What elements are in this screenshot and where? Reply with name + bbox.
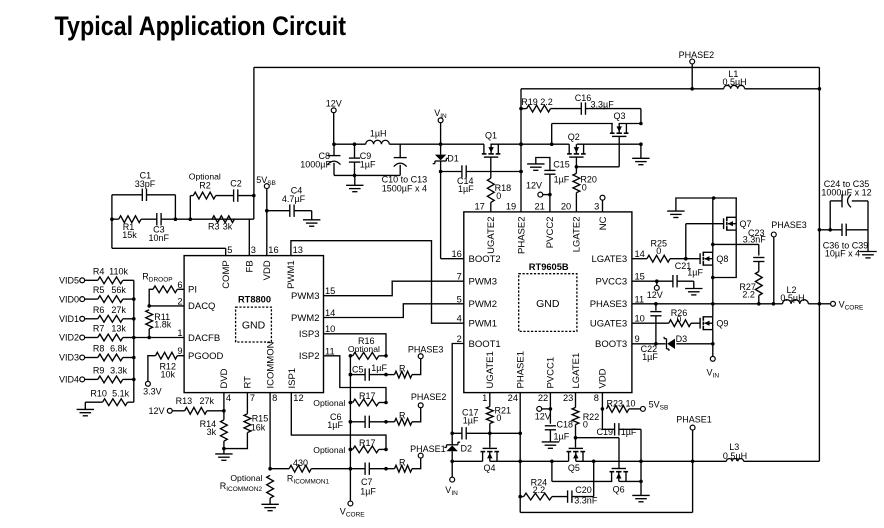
terminal VIN bottom-left	[445, 460, 458, 497]
capacitor C17	[462, 408, 479, 440]
svg-text:PWM1: PWM1	[469, 319, 498, 330]
U1 right pin numbers	[325, 286, 335, 356]
capacitor C14	[457, 165, 474, 194]
resistor R5	[85, 285, 134, 302]
svg-text:R10: R10	[90, 388, 107, 398]
svg-text:9: 9	[635, 334, 640, 344]
svg-text:Q8: Q8	[716, 254, 728, 264]
wire DACFB	[134, 336, 184, 340]
resistor R25	[632, 238, 700, 262]
wire comp left node	[110, 195, 114, 249]
wire VDD	[265, 209, 290, 256]
resistor R18	[487, 157, 511, 212]
svg-text:7: 7	[457, 272, 462, 282]
svg-text:PWM2: PWM2	[291, 313, 320, 324]
wire C24 right	[846, 201, 868, 252]
svg-text:VDD: VDD	[262, 260, 273, 280]
svg-text:C5: C5	[352, 364, 364, 374]
resistor R12	[148, 352, 184, 381]
resistor R22	[572, 393, 599, 448]
svg-text:C19: C19	[596, 427, 613, 437]
U1 bottom pin numbers	[226, 393, 304, 403]
svg-text:3k: 3k	[207, 427, 217, 437]
svg-text:5: 5	[457, 294, 462, 304]
svg-text:PHASE3: PHASE3	[408, 345, 444, 355]
capacitor C1	[112, 171, 175, 202]
wire PHASE3 rail	[632, 302, 820, 306]
svg-text:4.7µF: 4.7µF	[282, 194, 306, 204]
wire C23 link	[713, 244, 759, 255]
svg-text:R17: R17	[359, 391, 376, 401]
svg-text:PHASE2: PHASE2	[516, 217, 527, 255]
svg-text:0: 0	[496, 191, 501, 201]
svg-text:Optional: Optional	[313, 398, 345, 408]
svg-text:430: 430	[293, 458, 308, 468]
svg-text:PWM2: PWM2	[469, 299, 498, 310]
svg-text:2.2: 2.2	[533, 485, 546, 495]
transistor Q9	[700, 316, 728, 330]
svg-text:1500µF x 4: 1500µF x 4	[382, 183, 427, 193]
svg-text:VID0: VID0	[59, 294, 79, 304]
U1 right pin names	[291, 291, 320, 362]
svg-text:C18: C18	[557, 419, 574, 429]
svg-text:COMP: COMP	[221, 260, 232, 289]
terminal VCORE right	[819, 299, 864, 311]
capacitor C7	[350, 463, 387, 497]
resistor R phase1	[386, 458, 421, 473]
terminal 5VSB	[256, 175, 276, 211]
wire bottom return	[520, 430, 692, 512]
terminal 12V input	[326, 98, 342, 144]
U2 left pin numbers	[451, 249, 461, 344]
terminal PHASE3 mid	[408, 345, 444, 359]
ground C15	[527, 164, 544, 170]
svg-text:0: 0	[582, 182, 587, 192]
ground C18	[542, 442, 559, 448]
wire C17 row	[450, 432, 522, 436]
svg-text:1000µF x 12: 1000µF x 12	[821, 187, 871, 197]
svg-text:14: 14	[635, 249, 645, 259]
capacitor C2	[230, 178, 255, 202]
svg-text:PHASE3: PHASE3	[771, 220, 807, 230]
svg-text:0: 0	[677, 314, 682, 324]
wire PWM3 link	[324, 281, 464, 296]
svg-text:R2: R2	[199, 180, 211, 190]
svg-text:PWM3: PWM3	[291, 291, 320, 302]
resistor R7	[85, 324, 134, 341]
svg-text:PHASE3: PHASE3	[590, 299, 628, 310]
svg-text:15: 15	[635, 272, 645, 282]
svg-text:2: 2	[177, 296, 182, 306]
wire ISP3	[324, 334, 387, 356]
svg-text:PHASE1: PHASE1	[410, 444, 446, 454]
svg-text:R6: R6	[93, 305, 105, 315]
svg-text:0: 0	[496, 413, 501, 423]
svg-text:Q9: Q9	[716, 319, 728, 329]
svg-text:1µF: 1µF	[554, 175, 570, 185]
ground C21	[685, 289, 702, 295]
svg-text:10µF x 4: 10µF x 4	[825, 249, 860, 259]
wire Q8 drain	[711, 198, 715, 252]
capacitor C5	[349, 363, 388, 381]
svg-text:5: 5	[227, 245, 232, 255]
wire ICOMMON	[268, 393, 272, 471]
svg-text:10: 10	[635, 314, 645, 324]
wire main low rail	[452, 460, 694, 464]
svg-text:8: 8	[272, 393, 277, 403]
svg-text:3: 3	[594, 201, 599, 211]
svg-text:1µF: 1µF	[687, 268, 703, 278]
terminal VID5	[59, 276, 85, 286]
U1 left pin names	[188, 285, 224, 362]
svg-text:C2: C2	[230, 178, 242, 188]
svg-text:D1: D1	[447, 153, 459, 163]
capacitor C10-C13	[382, 144, 428, 193]
terminal VID4	[59, 375, 85, 385]
terminal 12V PVCC3	[647, 285, 663, 299]
resistor R6	[85, 305, 134, 322]
svg-text:1µF: 1µF	[360, 487, 376, 497]
terminal PHASE1 bottom	[676, 414, 712, 430]
svg-text:27k: 27k	[111, 305, 126, 315]
resistor R23	[606, 398, 640, 412]
inductor 1uH	[366, 129, 390, 145]
svg-text:VID1: VID1	[59, 314, 79, 324]
svg-text:3.3nF: 3.3nF	[574, 495, 598, 505]
transistor Q7	[724, 217, 752, 231]
terminal 12V PVCC2	[526, 180, 552, 197]
U2 right pin numbers	[635, 249, 645, 344]
svg-text:VDD: VDD	[598, 368, 609, 388]
svg-text:10nF: 10nF	[148, 233, 169, 243]
wire PHASE1 pin24	[518, 393, 522, 513]
terminal 12V DVD	[148, 406, 172, 416]
svg-text:17: 17	[474, 201, 484, 211]
U1 top pin numbers	[227, 245, 303, 255]
resistor R9	[85, 366, 134, 383]
svg-text:ISP1: ISP1	[287, 368, 298, 389]
wire COMP	[112, 248, 226, 255]
inductor L2	[780, 285, 808, 304]
svg-text:20: 20	[561, 201, 571, 211]
svg-text:110k: 110k	[109, 266, 128, 276]
svg-text:5.1k: 5.1k	[112, 388, 130, 398]
capacitor C24-C35	[821, 179, 871, 208]
svg-text:VID3: VID3	[59, 353, 79, 363]
svg-text:1µF: 1µF	[360, 159, 376, 169]
svg-text:3.3V: 3.3V	[143, 386, 162, 396]
svg-text:16k: 16k	[251, 423, 266, 433]
svg-text:10k: 10k	[160, 369, 175, 379]
svg-text:R: R	[399, 411, 406, 421]
wire Q7 gate	[686, 224, 724, 259]
ground C4	[303, 211, 320, 227]
svg-text:0: 0	[583, 420, 588, 430]
terminal 5VSB right	[640, 400, 668, 412]
svg-text:Q2: Q2	[568, 132, 580, 142]
transistor Q5	[567, 448, 586, 473]
svg-text:1µF: 1µF	[642, 352, 658, 362]
ground Q6	[632, 495, 649, 501]
svg-text:Q1: Q1	[485, 131, 497, 141]
resistor R16	[348, 336, 388, 359]
wire PHASE2 vertical	[519, 89, 523, 212]
svg-text:3k: 3k	[223, 222, 233, 232]
ground VID	[77, 402, 94, 416]
svg-text:LGATE2: LGATE2	[572, 217, 583, 253]
wire C19 down	[639, 429, 643, 495]
svg-text:R4: R4	[93, 266, 105, 276]
wire VCORE sense	[349, 356, 353, 501]
transistor Q4	[481, 448, 500, 473]
svg-text:ISP2: ISP2	[299, 351, 320, 362]
svg-text:GND: GND	[536, 298, 560, 310]
terminal PHASE1 mid	[410, 444, 446, 458]
capacitor C6	[327, 412, 388, 430]
svg-text:DACFB: DACFB	[188, 333, 220, 344]
U2 left pin names	[469, 254, 501, 350]
svg-text:1µF: 1µF	[554, 431, 570, 441]
capacitor C21	[673, 261, 704, 289]
svg-text:R9: R9	[93, 366, 105, 376]
wire Q8 source	[711, 265, 715, 306]
svg-text:UGATE1: UGATE1	[485, 351, 496, 388]
wire ISP2	[324, 356, 387, 403]
svg-text:23: 23	[563, 393, 573, 403]
wire Q6 source	[552, 461, 641, 481]
terminal PHASE2 top	[679, 50, 715, 89]
svg-text:11: 11	[635, 294, 645, 304]
resistor R26	[632, 308, 700, 326]
resistor RDROOP	[142, 272, 184, 306]
wire Q7 source	[713, 230, 736, 277]
svg-text:R7: R7	[93, 324, 105, 334]
svg-text:10: 10	[325, 324, 335, 334]
ground RICOMMON2	[261, 504, 278, 510]
wire Q9 source	[711, 330, 715, 357]
diode D3	[664, 334, 687, 351]
capacitor C3	[141, 213, 190, 243]
wire Q7 drain	[735, 198, 737, 217]
wire PVCC3	[632, 279, 673, 285]
terminal VID2	[59, 333, 85, 343]
terminal VCORE bottom	[340, 501, 365, 518]
svg-text:VID5: VID5	[59, 276, 79, 286]
svg-text:UGATE2: UGATE2	[486, 217, 497, 254]
transistor Q2	[567, 132, 586, 157]
svg-text:LGATE1: LGATE1	[571, 353, 582, 389]
wire PVCC1	[549, 393, 553, 424]
svg-text:1000µF: 1000µF	[300, 159, 331, 169]
ground C24 bank	[859, 252, 876, 258]
ground input filter	[346, 175, 363, 191]
wire BOOT3	[632, 342, 713, 346]
U1 left pin numbers	[177, 280, 182, 356]
svg-text:PHASE2: PHASE2	[411, 392, 447, 402]
diode D1	[433, 144, 459, 171]
terminal 3.3V	[143, 381, 162, 396]
diode D2	[444, 442, 472, 461]
svg-text:Q3: Q3	[613, 111, 625, 121]
svg-text:DVD: DVD	[219, 368, 230, 388]
wire Q6 gate	[574, 436, 619, 469]
svg-text:BOOT3: BOOT3	[595, 339, 627, 350]
wire PHASE2-L1 top	[521, 87, 819, 91]
capacitor C23	[743, 228, 767, 272]
svg-text:1.8k: 1.8k	[154, 320, 172, 330]
wire right VCORE rail vertical	[818, 67, 822, 461]
U2 right pin names	[590, 254, 628, 350]
svg-text:27k: 27k	[200, 396, 215, 406]
U1 bottom pin names	[219, 341, 298, 388]
svg-text:0: 0	[656, 246, 661, 256]
svg-text:6: 6	[177, 280, 182, 290]
svg-text:D2: D2	[461, 444, 473, 454]
svg-text:R17: R17	[359, 438, 376, 448]
capacitor C16	[575, 93, 641, 124]
capacitor C18	[545, 419, 573, 442]
svg-text:0.5µH: 0.5µH	[780, 293, 804, 303]
svg-text:Q6: Q6	[613, 485, 625, 495]
svg-text:DACQ: DACQ	[188, 301, 215, 312]
svg-text:LGATE3: LGATE3	[591, 254, 627, 265]
svg-text:R19 2.2: R19 2.2	[521, 97, 553, 107]
resistor R4	[85, 266, 134, 283]
terminal VID3	[59, 353, 85, 363]
resistor R20	[573, 167, 597, 212]
resistor R17a	[313, 391, 388, 408]
resistor R1	[112, 216, 141, 240]
svg-text:14: 14	[325, 308, 335, 318]
svg-text:R5: R5	[93, 285, 105, 295]
svg-text:12V: 12V	[148, 406, 164, 416]
svg-text:1: 1	[177, 328, 182, 338]
terminal VIN right	[707, 356, 720, 379]
svg-text:R: R	[399, 363, 406, 373]
svg-text:PWM1: PWM1	[286, 260, 297, 289]
capacitor C8	[300, 144, 340, 175]
U2 bottom pin numbers	[482, 393, 599, 403]
svg-text:PGOOD: PGOOD	[188, 351, 224, 362]
svg-text:56k: 56k	[111, 285, 126, 295]
svg-text:7: 7	[250, 393, 255, 403]
svg-text:16: 16	[268, 245, 278, 255]
svg-text:6.8k: 6.8k	[110, 344, 128, 354]
svg-text:9: 9	[177, 346, 182, 356]
svg-text:12V: 12V	[535, 412, 551, 422]
svg-text:C16: C16	[575, 93, 592, 103]
wire FB-VCORE sense loop	[254, 67, 820, 195]
inductor L1	[722, 69, 746, 89]
svg-text:VID2: VID2	[59, 333, 79, 343]
capacitor C4	[282, 186, 312, 217]
svg-text:13k: 13k	[111, 324, 126, 334]
capacitor C15	[536, 158, 570, 212]
svg-text:R3: R3	[208, 222, 220, 232]
wire FB node	[189, 196, 254, 256]
svg-text:C15: C15	[553, 160, 570, 170]
resistor R24	[520, 477, 568, 500]
svg-text:2: 2	[457, 334, 462, 344]
wire Q3 drain	[552, 122, 643, 145]
resistor R19	[521, 97, 581, 112]
svg-text:0.5µH: 0.5µH	[722, 77, 746, 87]
svg-text:3.3µF: 3.3µF	[591, 100, 615, 110]
transistor Q1	[482, 131, 501, 158]
svg-text:D3: D3	[676, 334, 688, 344]
svg-text:GND: GND	[242, 319, 266, 331]
svg-text:NC: NC	[598, 216, 609, 230]
svg-text:PVCC2: PVCC2	[545, 217, 556, 249]
resistor RICOMMON1 430	[270, 458, 350, 485]
wire DACQ	[147, 304, 184, 308]
wire Q9 drain	[712, 304, 714, 317]
IC U1 RT8800	[184, 256, 323, 393]
svg-text:0.5µH: 0.5µH	[723, 451, 747, 461]
terminal PHASE3 right	[771, 220, 807, 304]
U1 top pin names	[221, 260, 297, 289]
svg-text:ISP3: ISP3	[299, 329, 320, 340]
resistor R11	[146, 310, 172, 338]
svg-text:3: 3	[251, 245, 256, 255]
svg-text:1µF: 1µF	[458, 184, 474, 194]
svg-text:8: 8	[594, 393, 599, 403]
svg-text:RT8800: RT8800	[238, 295, 271, 305]
wire BOOT1	[452, 344, 464, 445]
svg-text:12V: 12V	[326, 98, 342, 108]
capacitor C36-C39	[823, 224, 869, 259]
terminal PHASE2 mid	[411, 392, 447, 408]
wire VIN rail	[332, 142, 643, 146]
wire C1 right	[174, 195, 178, 221]
svg-text:VID4: VID4	[59, 375, 79, 385]
svg-text:BOOT1: BOOT1	[469, 339, 501, 350]
svg-text:33pF: 33pF	[135, 179, 156, 189]
svg-text:R23 10: R23 10	[607, 398, 636, 408]
svg-text:1: 1	[482, 393, 487, 403]
resistor R27	[739, 272, 762, 306]
resistor RICOMMON2	[220, 473, 274, 504]
svg-text:PVCC1: PVCC1	[546, 357, 557, 389]
svg-text:19: 19	[506, 201, 516, 211]
svg-text:1µF: 1µF	[463, 416, 479, 426]
U2 bottom pin names	[485, 351, 609, 389]
svg-text:12V: 12V	[526, 180, 542, 190]
svg-text:Typical Application Circuit: Typical Application Circuit	[55, 11, 347, 41]
U2 top pin names	[486, 216, 609, 254]
capacitor C19	[596, 409, 641, 437]
wire PWM2 link	[324, 304, 464, 318]
transistor Q6	[610, 469, 629, 495]
terminal NC pin3	[600, 195, 605, 212]
wire R2 branch	[189, 196, 191, 220]
svg-text:21: 21	[534, 201, 544, 211]
resistor R13	[173, 396, 224, 414]
resistor R phase2	[386, 408, 421, 425]
svg-text:PHASE1: PHASE1	[676, 414, 712, 424]
svg-text:1µF: 1µF	[371, 363, 387, 373]
transistor Q3	[610, 111, 629, 136]
svg-text:15: 15	[325, 286, 335, 296]
svg-text:12: 12	[293, 393, 303, 403]
svg-text:1µF: 1µF	[327, 420, 343, 430]
svg-text:BOOT2: BOOT2	[469, 254, 501, 265]
svg-text:4: 4	[226, 393, 231, 403]
wire boot2 node	[439, 170, 523, 174]
resistor R2	[189, 172, 234, 200]
svg-text:Optional: Optional	[348, 344, 380, 354]
svg-text:13: 13	[293, 245, 303, 255]
